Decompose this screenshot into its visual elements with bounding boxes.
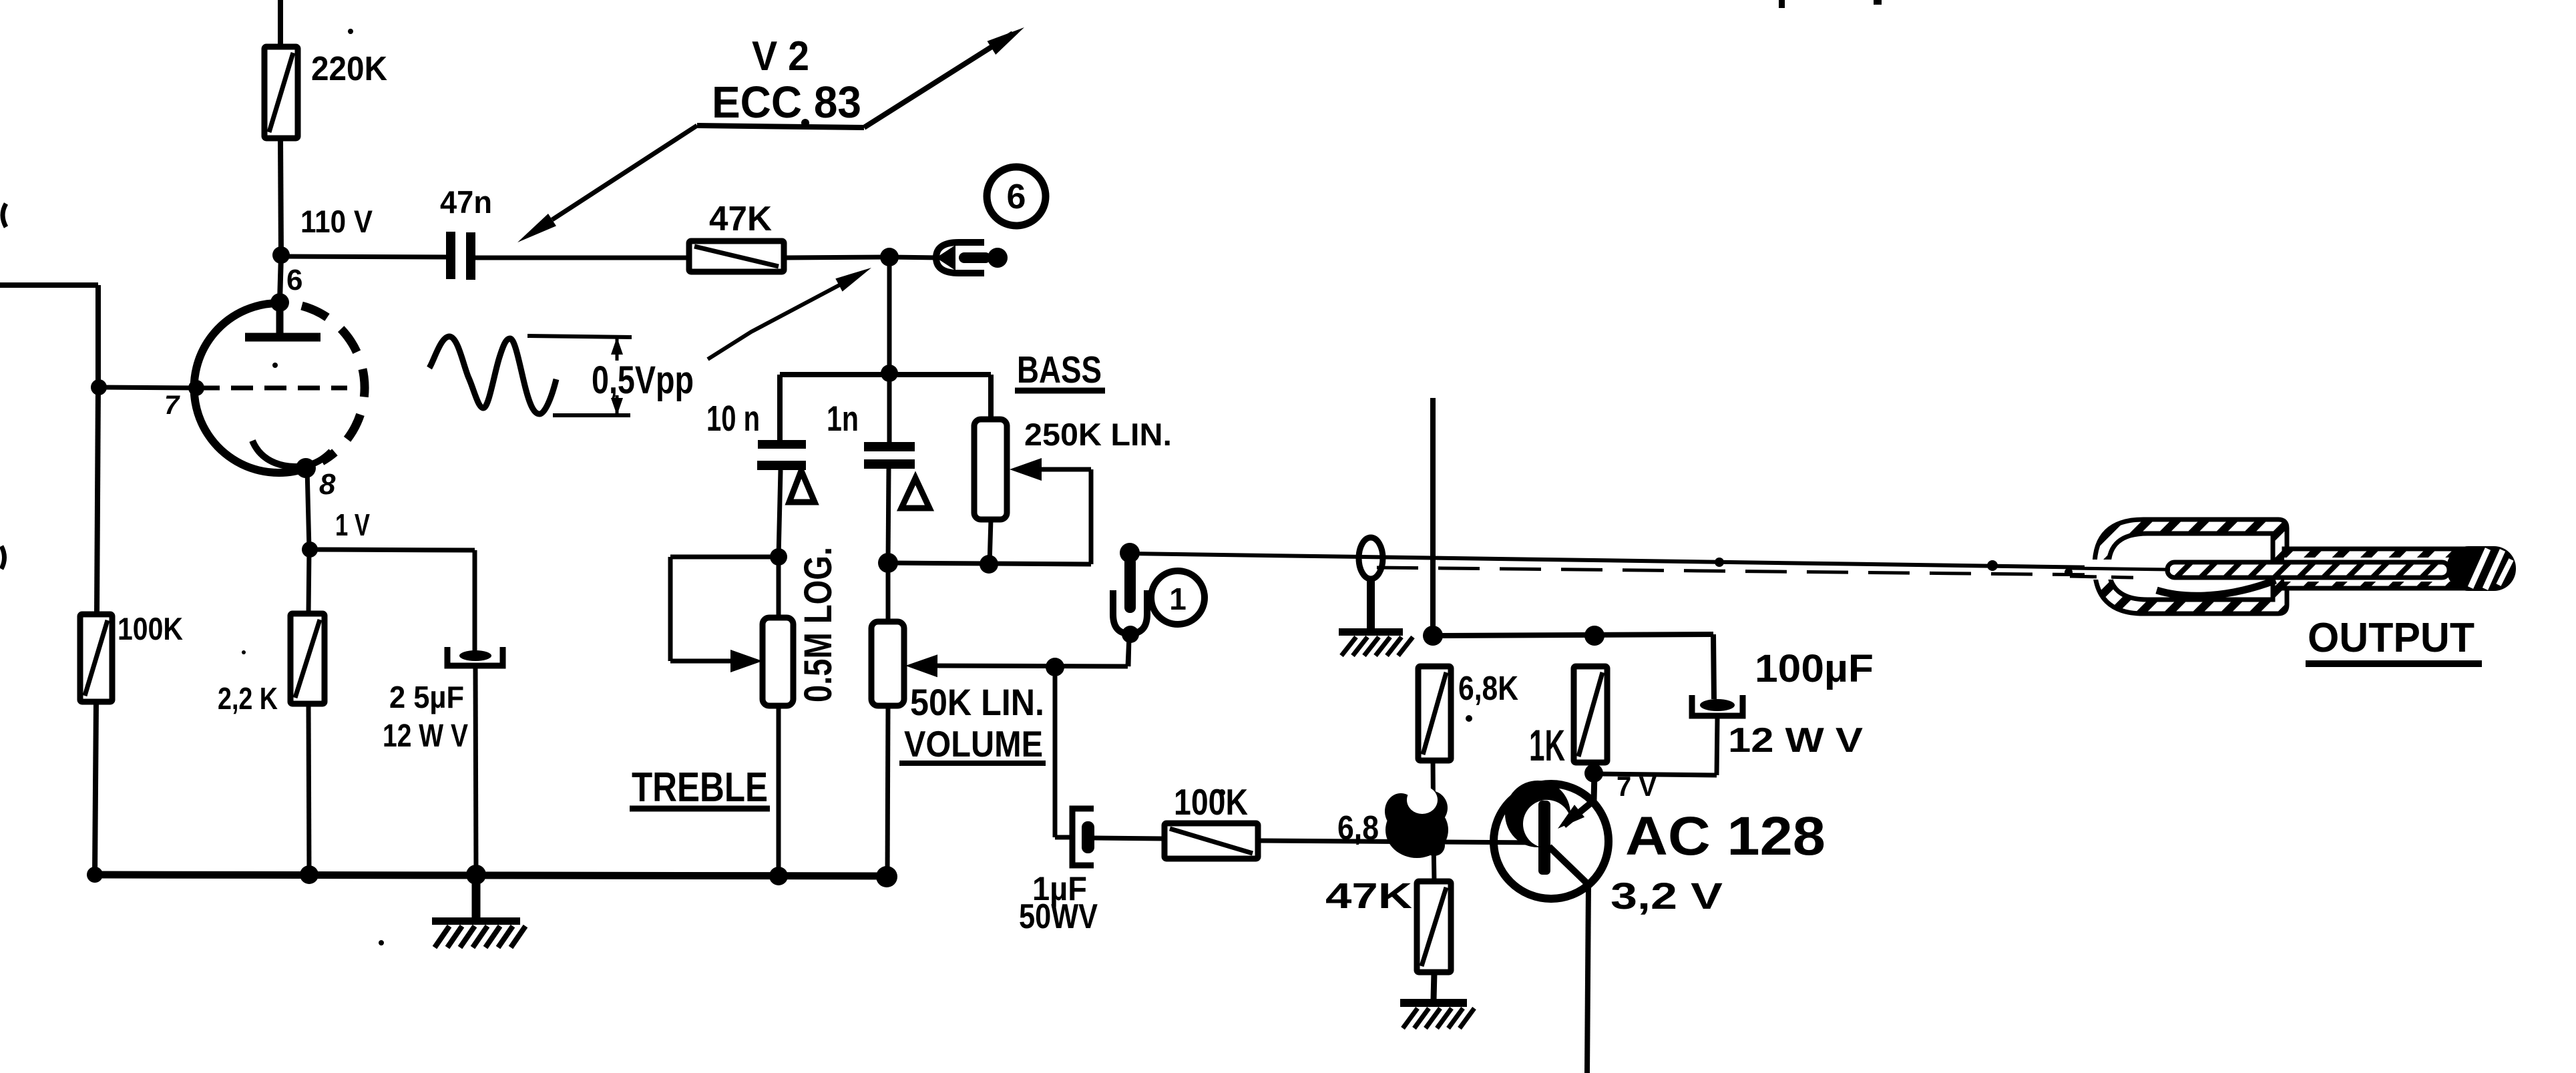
arrowhead leader up right	[835, 268, 871, 292]
svg-text:OUTPUT: OUTPUT	[2308, 615, 2475, 661]
transistor collector lead	[1549, 847, 1588, 885]
wire 1n to volume node	[888, 469, 889, 563]
svg-text:6: 6	[286, 264, 302, 296]
node emitter dot	[1584, 764, 1603, 783]
svg-text:110 V: 110 V	[300, 204, 373, 239]
wire to 1uF	[1055, 835, 1072, 840]
svg-text:12 W V: 12 W V	[1728, 721, 1863, 760]
node volume-bass horizontal	[888, 563, 1091, 564]
dot on long line a	[1715, 558, 1724, 567]
svg-text:12 W V: 12 W V	[383, 718, 468, 754]
dimension bottom line	[553, 413, 630, 417]
treble wiper line	[670, 659, 734, 664]
volume node dot	[878, 553, 898, 573]
ground symbol 47K	[1400, 999, 1467, 1007]
rail dot volume end	[876, 866, 897, 887]
wire corner to BASS pot	[988, 375, 994, 421]
pin 7 wire	[99, 387, 198, 388]
arrowhead pointing to anode wire	[517, 214, 556, 242]
svg-text:1K: 1K	[1529, 720, 1565, 770]
earphone entry dashed	[2070, 576, 2133, 578]
artifact dot below 6,8K	[1466, 715, 1472, 722]
capacitor C 100uF electrolytic	[1700, 699, 1735, 711]
wire left vertical to 100K	[97, 388, 98, 614]
wire 100K to rail	[95, 702, 96, 875]
wire node to connector 6	[889, 257, 939, 258]
capacitor C 47n	[446, 232, 455, 279]
potentiometer TREBLE 0.5M	[763, 618, 793, 706]
circled 6 marker	[987, 167, 1046, 226]
cable shield loop	[1359, 538, 1383, 579]
comma mark under ECC83	[801, 119, 809, 127]
supply rail horizontal	[1433, 634, 1713, 636]
svg-text:50WV: 50WV	[1019, 897, 1098, 936]
svg-text:3,2 V: 3,2 V	[1611, 875, 1723, 917]
capacitor C 1n	[864, 442, 915, 451]
wire top supply feed	[278, 0, 283, 48]
dot on dashed line	[2065, 568, 2073, 576]
speck near ground	[379, 940, 384, 945]
node cathode dot	[302, 542, 318, 558]
svg-text:7: 7	[164, 391, 180, 420]
svg-text:6,8: 6,8	[1337, 809, 1379, 847]
transistor base bar	[1538, 801, 1550, 875]
ink blob B over transistor	[1505, 781, 1570, 847]
svg-text:10 n: 10 n	[706, 399, 760, 439]
svg-text:2 5µF: 2 5µF	[389, 680, 464, 714]
resistor R 2.2K	[290, 614, 325, 704]
tube grid dashed line	[198, 386, 347, 391]
capacitor C 1uF electrolytic	[1072, 809, 1094, 865]
top edge mark a	[1779, 0, 1785, 8]
svg-text:AC 128: AC 128	[1625, 806, 1826, 867]
wire 10n to treble node	[779, 470, 781, 557]
rail dot left	[87, 867, 103, 883]
svg-text:TREBLE: TREBLE	[632, 765, 768, 811]
capacitor C 25uF electrolytic	[459, 650, 491, 661]
node junction dot at test point 6	[880, 248, 899, 266]
wire 25uF top lead	[473, 550, 477, 652]
connector 1 wire down	[1128, 638, 1129, 666]
node base junction dot	[1424, 835, 1445, 856]
node left wire dot	[91, 379, 107, 395]
underline VOLUME	[899, 761, 1046, 766]
dimension vertical line upper	[616, 337, 619, 361]
bass wiper arrow	[1010, 458, 1042, 481]
tiny dot tube center	[272, 363, 278, 368]
underline TREBLE	[630, 806, 770, 812]
resistor R 100K input	[80, 614, 112, 702]
connector 1 top dot	[1120, 543, 1140, 563]
potentiometer VOLUME 50K	[871, 622, 904, 706]
wire emitter node to cap	[1594, 774, 1717, 775]
svg-text:100µF: 100µF	[1755, 647, 1874, 690]
svg-text:0.5M LOG.: 0.5M LOG.	[797, 547, 840, 702]
wire corner to 10n	[777, 375, 783, 441]
ground symbol shield	[1339, 628, 1403, 636]
supply dot 6.8K	[1423, 626, 1443, 646]
supply dot 1K	[1584, 626, 1604, 646]
wire node to capacitor 47n	[281, 256, 447, 257]
bass wiper line	[1039, 467, 1091, 472]
svg-text:1: 1	[1169, 582, 1187, 616]
ground rail bottom	[93, 875, 888, 876]
svg-text:2,2 K: 2,2 K	[218, 681, 278, 716]
resistor R 1K	[1574, 666, 1607, 763]
svg-text:VOLUME: VOLUME	[904, 723, 1043, 765]
artifact dot above 100K	[1219, 789, 1225, 796]
wire node 6 down to tone network	[887, 257, 892, 374]
speck near top	[348, 29, 353, 34]
wire 100uF bottom lead	[1717, 718, 1717, 775]
transistor emitter lead	[1594, 773, 1594, 801]
wire base node to 47K	[1434, 843, 1434, 881]
dot on long line b	[1987, 560, 1998, 571]
pin 6 dot	[270, 293, 289, 312]
svg-text:1 V: 1 V	[335, 507, 370, 542]
shield stem	[1367, 578, 1375, 630]
transistor emitter arrow	[1558, 805, 1584, 829]
wire 1K to emitter node	[1592, 763, 1596, 773]
wire cathode to 25uF	[310, 550, 475, 550]
treble wiper arrow	[730, 650, 763, 672]
supply corner to 100uF	[1713, 634, 1714, 699]
triode V2 envelope solid arc	[194, 303, 308, 473]
leader line V2 lower	[552, 126, 697, 220]
treble feedback top	[670, 555, 779, 560]
connector test point 6	[936, 245, 955, 270]
svg-text:BASS: BASS	[1017, 349, 1102, 391]
svg-text:100K: 100K	[1174, 781, 1248, 823]
potentiometer BASS 250K	[974, 419, 1007, 519]
svg-text:50K LIN.: 50K LIN.	[910, 681, 1044, 723]
transistor Q1 AC128 circle	[1494, 784, 1608, 899]
earphone membrane swoosh	[2157, 580, 2276, 596]
wire left edge horizontal	[0, 282, 98, 288]
earphone end cap	[2446, 546, 2516, 591]
treble feedback left	[668, 557, 673, 661]
wire left vertical down	[95, 285, 101, 388]
long output line	[1130, 554, 2101, 568]
svg-text:47n: 47n	[440, 184, 492, 220]
svg-text:100K: 100K	[118, 611, 183, 646]
capacitor C 10n	[758, 440, 806, 449]
wire 100K to base node	[1258, 841, 1540, 843]
svg-text:0,5Vpp: 0,5Vpp	[592, 359, 694, 402]
node 110V junction dot	[272, 246, 290, 264]
wire 47K to ground	[1434, 972, 1434, 1000]
svg-text:250K LIN.: 250K LIN.	[1024, 417, 1172, 452]
underline OUTPUT	[2306, 660, 2482, 667]
treble top lead	[777, 557, 781, 618]
wire volume node down	[1053, 667, 1058, 837]
wire 1n top lead	[887, 373, 892, 442]
wire 220K to node 110V	[280, 138, 281, 255]
triode V2 envelope dashed arc	[302, 306, 365, 461]
left edge mark lower	[1, 546, 5, 569]
volume top lead	[886, 563, 891, 622]
connector 1 pin	[1124, 557, 1136, 613]
connector 1 bottom dot	[1122, 626, 1139, 643]
treble bottom lead	[777, 706, 781, 876]
pin 7 dot at grid	[188, 380, 204, 396]
volume wiper junction dot	[1046, 658, 1064, 676]
resistor R 47K	[689, 241, 784, 272]
leader line V2 upper diagonal	[864, 33, 1013, 128]
speck near 2.2K	[242, 650, 246, 654]
volume wiper arrow	[905, 654, 937, 677]
resistor R 47K bias	[1417, 881, 1451, 972]
bass net dot	[980, 555, 998, 574]
underline BASS	[1015, 388, 1105, 394]
volume wiper corner up	[1128, 636, 1129, 666]
trimmer triangle of 10n	[789, 471, 815, 502]
earphone body shell	[2095, 519, 2287, 614]
circled 1 marker	[1151, 571, 1205, 624]
tube cathode	[252, 441, 331, 467]
svg-text:ECC 83: ECC 83	[712, 77, 861, 128]
svg-text:220K: 220K	[311, 49, 387, 87]
wire tone top horizontal	[780, 372, 991, 377]
svg-text:V 2: V 2	[752, 33, 809, 79]
dimension arrow up	[611, 337, 623, 355]
ground symbol main	[472, 875, 481, 919]
arrowhead V2 up right	[988, 27, 1025, 55]
svg-text:1n: 1n	[827, 399, 859, 439]
leader from 0,5Vpp to node	[708, 285, 839, 359]
long output line dashed shadow	[1377, 568, 2101, 575]
bass wiper corner down	[1089, 469, 1094, 564]
bass bottom lead	[990, 519, 991, 564]
svg-text:8: 8	[319, 468, 336, 501]
dimension vertical line lower	[616, 395, 619, 415]
rail dot treble	[769, 867, 788, 885]
svg-text:7 V: 7 V	[1617, 771, 1657, 802]
earphone wire entry notch	[2085, 560, 2113, 580]
node tone top junction dot	[881, 365, 898, 382]
tube anode plate	[276, 302, 284, 334]
wire 1uF to 100K	[1094, 838, 1164, 839]
leader line V2 underline segment	[697, 126, 864, 128]
treble node dot	[770, 548, 787, 566]
left edge mark upper	[3, 204, 6, 227]
wire 6.8K to base node	[1433, 761, 1434, 843]
top edge mark b	[1874, 0, 1882, 5]
resistor R 100K base	[1164, 823, 1258, 859]
svg-text:47K: 47K	[1325, 876, 1412, 916]
rail dot cathode branch	[300, 865, 318, 884]
sine waveform	[429, 337, 556, 414]
resistor R 220K	[264, 47, 298, 138]
volume bottom lead	[887, 706, 888, 876]
wire cathode down	[307, 469, 309, 549]
dimension arrow down	[611, 398, 623, 415]
earphone crystal strip	[2167, 562, 2449, 578]
trimmer triangle of 1n	[901, 478, 929, 508]
svg-text:47K: 47K	[709, 200, 772, 238]
svg-text:6,8K: 6,8K	[1458, 669, 1518, 707]
pin 8 dot	[296, 458, 316, 478]
connector 1 fork	[1113, 590, 1147, 634]
wire 47n to 47K	[475, 256, 690, 260]
svg-text:6: 6	[1007, 178, 1026, 216]
supply line vertical	[1430, 398, 1436, 636]
earphone entry wire	[2070, 568, 2170, 570]
rail dot ground stem	[466, 865, 486, 885]
ink blob A over base junction	[1385, 802, 1448, 858]
wire cathode to 2.2K	[308, 550, 309, 614]
wire node to tube anode pin 6	[280, 255, 281, 302]
wire 25uF to rail	[475, 668, 476, 875]
resistor R 6.8K	[1418, 666, 1451, 761]
earphone stem tube	[2284, 549, 2479, 588]
wire 2.2K to rail	[308, 704, 309, 875]
dimension top line	[527, 336, 632, 337]
wire 47K to node 6	[784, 257, 889, 258]
volume wiper line	[935, 666, 1128, 666]
